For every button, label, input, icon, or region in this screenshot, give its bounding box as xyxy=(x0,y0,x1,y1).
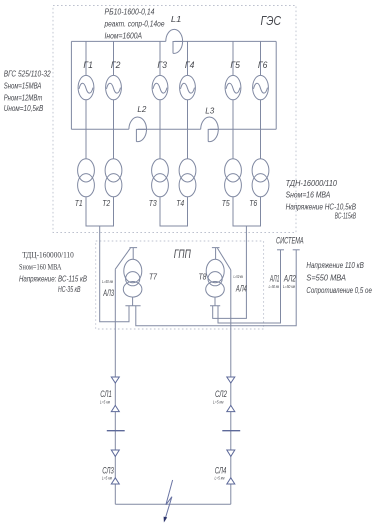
svg-text:Г6: Г6 xyxy=(258,60,268,70)
cable СЛ4 bottom termination xyxy=(227,478,235,484)
svg-text:Sном=160 МВА: Sном=160 МВА xyxy=(19,262,62,272)
svg-text:СИСТЕМА: СИСТЕМА xyxy=(276,236,304,246)
wire bottom tie with fault xyxy=(115,503,231,505)
СИСТЕМА terminal АЛ2 xyxy=(293,249,300,251)
cable СЛ2 bottom termination xyxy=(227,405,235,411)
svg-text:Т4: Т4 xyxy=(176,198,184,208)
svg-text:СЛ2: СЛ2 xyxy=(215,389,227,399)
svg-text:СЛ4: СЛ4 xyxy=(215,466,227,476)
cable СЛ1 top termination xyxy=(111,377,119,383)
svg-text:Т3: Т3 xyxy=(149,198,157,208)
svg-text:ГЭС: ГЭС xyxy=(261,14,282,28)
transformer Т5 xyxy=(225,159,242,197)
svg-text:L2: L2 xyxy=(137,104,146,114)
svg-text:L3: L3 xyxy=(205,105,214,115)
wire generator bus right edge xyxy=(275,41,277,129)
СИСТЕМА terminal АЛ1 xyxy=(277,249,284,251)
wire line АЛ2 (system to Т7) xyxy=(136,250,296,326)
wire Т8 HV lead diagonal xyxy=(217,248,230,270)
node bus between СЛ2 and СЛ4 xyxy=(222,430,240,432)
reactor L2 xyxy=(129,117,147,142)
label generator ВГС specs xyxy=(4,69,51,113)
labels Г1-Г6 xyxy=(83,60,267,70)
svg-text:РБ10-1600-0,14: РБ10-1600-0,14 xyxy=(105,6,155,16)
reactor L1 xyxy=(166,29,183,53)
svg-text:Рном=12МВт: Рном=12МВт xyxy=(4,93,43,103)
svg-text:СЛ1: СЛ1 xyxy=(100,389,112,399)
svg-text:ВГС 525/110-32: ВГС 525/110-32 xyxy=(4,69,51,79)
transformer Т8 xyxy=(206,248,225,306)
svg-text:Т8: Т8 xyxy=(199,271,207,281)
svg-text:S=550 МВА: S=550 МВА xyxy=(306,272,346,282)
svg-text:Г4: Г4 xyxy=(185,60,195,70)
svg-text:АЛ4: АЛ4 xyxy=(235,283,247,293)
generator Г2 xyxy=(106,41,122,158)
svg-text:Т6: Т6 xyxy=(249,198,257,208)
svg-text:ТДЦ-160000/110: ТДЦ-160000/110 xyxy=(22,249,74,259)
svg-text:АЛ2: АЛ2 xyxy=(283,274,296,284)
svg-text:L=50 км: L=50 км xyxy=(102,279,113,284)
labels Т1-Т6 xyxy=(75,198,258,208)
label system specs xyxy=(306,260,372,295)
svg-text:СЛ3: СЛ3 xyxy=(102,466,114,476)
svg-text:Г3: Г3 xyxy=(157,60,167,70)
svg-text:Г5: Г5 xyxy=(230,60,240,70)
transformer Т3 xyxy=(152,159,169,197)
wire generator bus top edge xyxy=(71,40,276,42)
fault arrow (short-circuit marker) xyxy=(165,480,173,520)
svg-text:L=5 км: L=5 км xyxy=(102,475,112,480)
node bus between СЛ1 and СЛ3 xyxy=(107,430,125,432)
svg-text:Iном=1600А: Iном=1600А xyxy=(105,30,143,40)
cable СЛ3 bottom termination xyxy=(111,478,119,484)
wire Т7 HV lead diagonal xyxy=(115,248,130,269)
svg-text:Sном=16 МВА: Sном=16 МВА xyxy=(286,189,331,199)
svg-text:Sном=15МВА: Sном=15МВА xyxy=(4,81,42,91)
svg-text:L=50 км: L=50 км xyxy=(269,284,280,289)
transformer Т4 xyxy=(179,159,196,197)
svg-text:L1: L1 xyxy=(171,14,182,24)
svg-text:Т5: Т5 xyxy=(222,198,230,208)
svg-text:Напряжение 110 кВ: Напряжение 110 кВ xyxy=(306,260,364,270)
ГПП dashed boundary xyxy=(96,241,264,329)
svg-text:Uном=10,5кВ: Uном=10,5кВ xyxy=(4,103,44,113)
svg-text:Сопротивление 0,5 ое: Сопротивление 0,5 ое xyxy=(306,285,372,295)
wire Т5-Т6 secondary loop xyxy=(233,197,261,226)
cable СЛ4 top termination xyxy=(227,450,235,456)
cable run СЛ2-СЛ4 xyxy=(230,270,232,504)
svg-text:L=5 км: L=5 км xyxy=(215,475,225,480)
generator Г6 xyxy=(253,41,269,158)
svg-text:ВС-115кВ: ВС-115кВ xyxy=(335,210,356,220)
svg-text:Г2: Г2 xyxy=(111,60,121,70)
svg-text:НС-35 кВ: НС-35 кВ xyxy=(58,284,81,294)
reactor L3 xyxy=(201,117,219,142)
svg-text:реакт. сопр-0,14ое: реакт. сопр-0,14ое xyxy=(104,18,165,28)
generator Г4 xyxy=(180,41,196,158)
svg-text:L=50 км: L=50 км xyxy=(234,274,244,279)
cable СЛ3 top termination xyxy=(111,450,119,456)
svg-text:Т1: Т1 xyxy=(75,198,83,208)
svg-text:Т2: Т2 xyxy=(102,198,110,208)
svg-text:ТДН-16000/110: ТДН-16000/110 xyxy=(286,178,338,188)
svg-text:L=5 км: L=5 км xyxy=(213,399,224,404)
cable СЛ2 top termination xyxy=(227,377,235,383)
cable СЛ1 bottom termination xyxy=(111,405,119,411)
generator Г5 xyxy=(225,41,241,158)
wire line АЛ4 (Т5Т6 to Т8 primary) xyxy=(213,226,247,318)
svg-text:L=5 км: L=5 км xyxy=(100,399,110,404)
label reactor РБ10 specs xyxy=(104,6,165,40)
generator Г1 xyxy=(78,41,94,158)
wire line АЛ1 (system to Т8) xyxy=(218,250,281,323)
wire Т1-Т2 secondary loop xyxy=(86,197,114,226)
wire generator bus left edge xyxy=(70,41,72,129)
svg-text:Напряжение: ВС-115 кВ: Напряжение: ВС-115 кВ xyxy=(19,274,87,284)
svg-text:Т7: Т7 xyxy=(149,271,157,281)
wire Т3-Т4 secondary loop xyxy=(160,197,188,226)
transformer Т7 xyxy=(123,248,142,306)
label transformer ТДН specs xyxy=(286,178,357,221)
wire generator bus bottom edge xyxy=(71,128,276,130)
transformer Т1 xyxy=(78,159,95,197)
svg-text:АЛ1: АЛ1 xyxy=(269,274,279,284)
transformer Т2 xyxy=(105,159,122,197)
transformer Т6 xyxy=(252,159,269,197)
svg-text:Г1: Г1 xyxy=(83,60,93,70)
svg-text:ГПП: ГПП xyxy=(174,249,191,261)
generator Г3 xyxy=(152,41,168,158)
svg-text:L=50 км: L=50 км xyxy=(283,284,295,289)
fault arrowhead xyxy=(164,517,168,523)
cable run СЛ1-СЛ3 xyxy=(114,269,116,504)
wire line АЛ3 (Т1Т2 to Т7 primary) xyxy=(100,226,129,322)
ГЭС dashed boundary xyxy=(53,6,296,233)
svg-text:АЛ3: АЛ3 xyxy=(103,288,114,298)
